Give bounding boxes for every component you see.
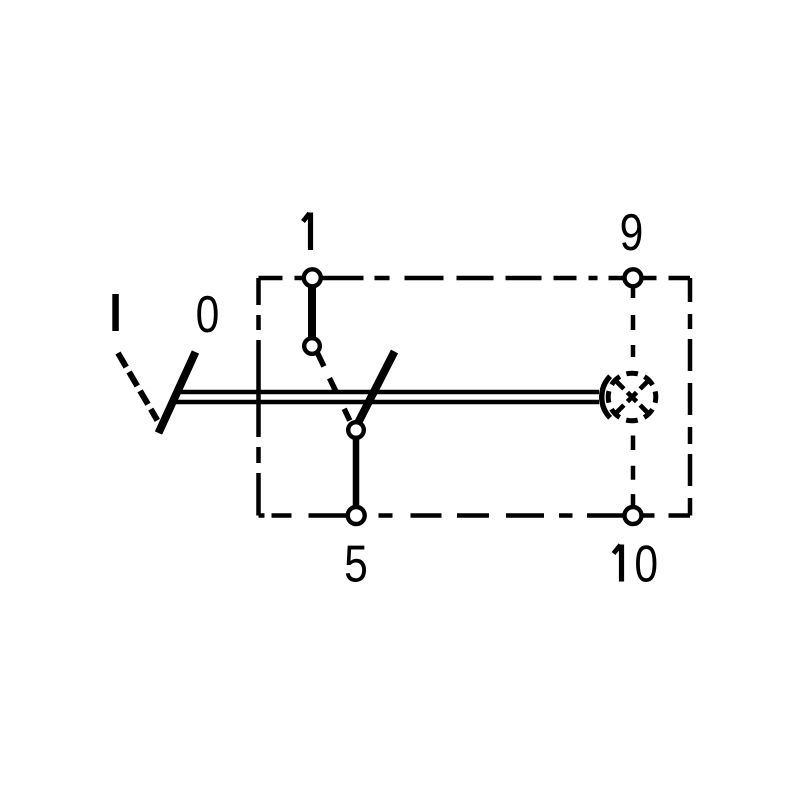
svg-text:0: 0 [196,286,220,344]
svg-text:9: 9 [620,204,644,262]
svg-text:5: 5 [344,536,368,594]
svg-text:0: 0 [634,536,658,594]
